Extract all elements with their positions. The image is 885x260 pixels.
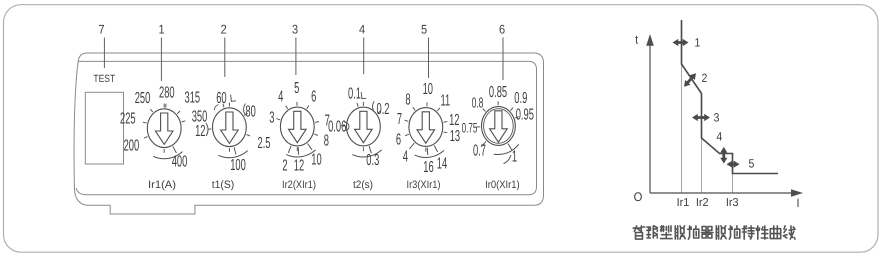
svg-text:11: 11 xyxy=(440,92,450,109)
scale value 350 xyxy=(182,121,186,122)
svg-text:2: 2 xyxy=(221,22,227,36)
tick marks t2 xyxy=(361,92,366,99)
svg-text:Ir0(XIr1): Ir0(XIr1) xyxy=(485,179,520,191)
scale value 0.1 xyxy=(357,103,358,107)
svg-text:5: 5 xyxy=(294,80,299,97)
TEST button window xyxy=(85,92,123,164)
svg-text:1: 1 xyxy=(695,36,701,50)
svg-text:1: 1 xyxy=(158,22,164,36)
scale value 225 xyxy=(143,121,147,124)
svg-text:7: 7 xyxy=(397,111,402,128)
scale value 1 xyxy=(508,144,512,150)
scale value 10 xyxy=(426,102,428,106)
svg-text:0.85: 0.85 xyxy=(489,84,507,101)
protection characteristic curve xyxy=(682,20,779,174)
I axis xyxy=(650,192,795,194)
reference line Ir3 xyxy=(732,174,734,193)
tick mark before 1 xyxy=(504,155,512,164)
svg-text:4: 4 xyxy=(359,22,365,36)
svg-text:6: 6 xyxy=(396,132,401,149)
adjust arrow 5 xyxy=(727,161,740,168)
svg-text:6: 6 xyxy=(311,88,316,105)
svg-text:4: 4 xyxy=(278,89,283,106)
scale value 7 xyxy=(405,120,409,121)
tick marks t1 xyxy=(231,95,236,102)
svg-text:0.7: 0.7 xyxy=(473,143,486,160)
svg-text:16: 16 xyxy=(423,159,433,176)
scale value 0.75 xyxy=(476,126,480,128)
svg-text:200: 200 xyxy=(124,138,140,155)
scale value 12 xyxy=(444,120,448,123)
adjust arrow 2 xyxy=(684,73,696,86)
svg-text:400: 400 xyxy=(172,154,188,171)
svg-text:2: 2 xyxy=(702,71,708,85)
rotary switch t2(s) xyxy=(347,107,381,146)
scale value 14 xyxy=(434,145,437,152)
rotary switch Ir3(XIr1) xyxy=(409,108,443,147)
scale value 0.06 xyxy=(341,125,345,127)
svg-text:10: 10 xyxy=(423,81,433,98)
trip unit face plate xyxy=(76,61,537,194)
svg-text:12: 12 xyxy=(195,123,205,140)
adjust arrow 1 xyxy=(673,39,689,46)
scale value 0.8 xyxy=(483,109,486,112)
svg-text:t2(s): t2(s) xyxy=(353,179,373,191)
caption 智能型脱扣器保护特性曲线 (vector strokes) xyxy=(633,226,795,239)
svg-text:6: 6 xyxy=(499,22,505,36)
svg-text:0.1: 0.1 xyxy=(348,85,361,102)
svg-text:14: 14 xyxy=(437,156,447,173)
scale value 13 xyxy=(444,131,448,134)
scale value 0.85 xyxy=(497,101,499,105)
svg-text:250: 250 xyxy=(135,90,151,107)
svg-text:100: 100 xyxy=(230,157,246,174)
svg-text:8: 8 xyxy=(405,92,410,109)
scale value 400 xyxy=(173,146,177,153)
svg-text:5: 5 xyxy=(421,22,427,36)
reference line Ir1 xyxy=(681,64,683,193)
scale value 315 xyxy=(177,111,180,114)
scale value 2.5 xyxy=(246,135,250,136)
svg-text:80: 80 xyxy=(245,103,255,120)
scale value 100 xyxy=(234,147,236,154)
scale value 2 xyxy=(288,146,291,153)
svg-text:O: O xyxy=(634,190,643,204)
scale value 6 xyxy=(405,134,409,135)
scale value 12 xyxy=(297,147,299,155)
scale value 0.95 xyxy=(515,117,519,119)
scale value 0.2 xyxy=(378,111,381,113)
scale value 11 xyxy=(437,108,440,111)
svg-text:0.95: 0.95 xyxy=(516,106,534,123)
svg-text:3: 3 xyxy=(714,111,720,125)
scale value 6 xyxy=(307,106,309,109)
svg-text:t: t xyxy=(635,32,639,46)
rotary switch Ir2(XIr1) xyxy=(280,107,314,146)
svg-text:Ir3: Ir3 xyxy=(726,197,739,209)
scale value 80 xyxy=(244,113,247,115)
svg-text:5: 5 xyxy=(749,156,755,170)
svg-text:1: 1 xyxy=(512,149,517,166)
svg-text:2: 2 xyxy=(282,157,287,174)
t axis xyxy=(649,45,651,193)
svg-text:4: 4 xyxy=(716,129,722,143)
scale value 4 xyxy=(286,106,288,109)
rotary switch Ir1(A) xyxy=(147,109,181,148)
svg-text:0.3: 0.3 xyxy=(366,152,379,169)
scale value 5 xyxy=(296,102,298,106)
svg-text:3: 3 xyxy=(269,109,274,126)
svg-text:4: 4 xyxy=(403,148,408,165)
svg-text:Ir1(A): Ir1(A) xyxy=(148,179,176,191)
svg-text:Ir3(XIr1): Ir3(XIr1) xyxy=(407,179,441,191)
scale value 60 xyxy=(223,104,224,108)
rotary switch Ir0(XIr1) xyxy=(482,107,516,146)
svg-text:t1(S): t1(S) xyxy=(212,179,235,191)
svg-text:0.8: 0.8 xyxy=(472,96,484,112)
svg-text:7: 7 xyxy=(98,22,104,36)
svg-text:I: I xyxy=(796,196,799,210)
reference line Ir2 xyxy=(701,138,703,193)
svg-text:Ir2: Ir2 xyxy=(696,197,709,209)
scale value 3 xyxy=(276,119,280,120)
scale value 16 xyxy=(426,148,429,156)
svg-text:0.2: 0.2 xyxy=(376,101,389,118)
scale value 200 xyxy=(144,137,148,139)
svg-text:315: 315 xyxy=(184,90,200,107)
scale value 0.9 xyxy=(511,108,514,111)
scale value 0.3 xyxy=(369,146,371,153)
scale value 12 xyxy=(207,128,211,130)
svg-text:0.75: 0.75 xyxy=(462,121,478,137)
svg-text:TEST: TEST xyxy=(93,73,115,85)
adjust arrow 4 xyxy=(720,147,727,164)
scale value 4 xyxy=(410,143,415,149)
scale value 8 xyxy=(413,107,415,110)
trip unit outer shell xyxy=(74,53,543,214)
scale value 0.7 xyxy=(481,141,486,147)
svg-text:2.5: 2.5 xyxy=(257,135,270,152)
rotary switch t1(S) xyxy=(213,108,247,147)
svg-text:Ir1: Ir1 xyxy=(677,197,690,209)
scale value 7 xyxy=(315,121,319,124)
svg-text:280: 280 xyxy=(159,84,175,101)
svg-text:10: 10 xyxy=(311,151,321,168)
scale value 250 xyxy=(150,109,153,112)
svg-text:3: 3 xyxy=(292,22,298,36)
scale value 280 xyxy=(165,104,167,108)
svg-text:0.06: 0.06 xyxy=(328,119,346,136)
scale value 8 xyxy=(314,134,318,135)
svg-text:13: 13 xyxy=(450,128,460,145)
svg-text:0.9: 0.9 xyxy=(514,90,527,107)
svg-text:Ir2(XIr1): Ir2(XIr1) xyxy=(282,179,316,191)
adjust arrow 3 xyxy=(692,114,710,121)
svg-text:12: 12 xyxy=(294,158,304,175)
svg-text:225: 225 xyxy=(120,110,136,127)
scale value 10 xyxy=(308,144,312,150)
